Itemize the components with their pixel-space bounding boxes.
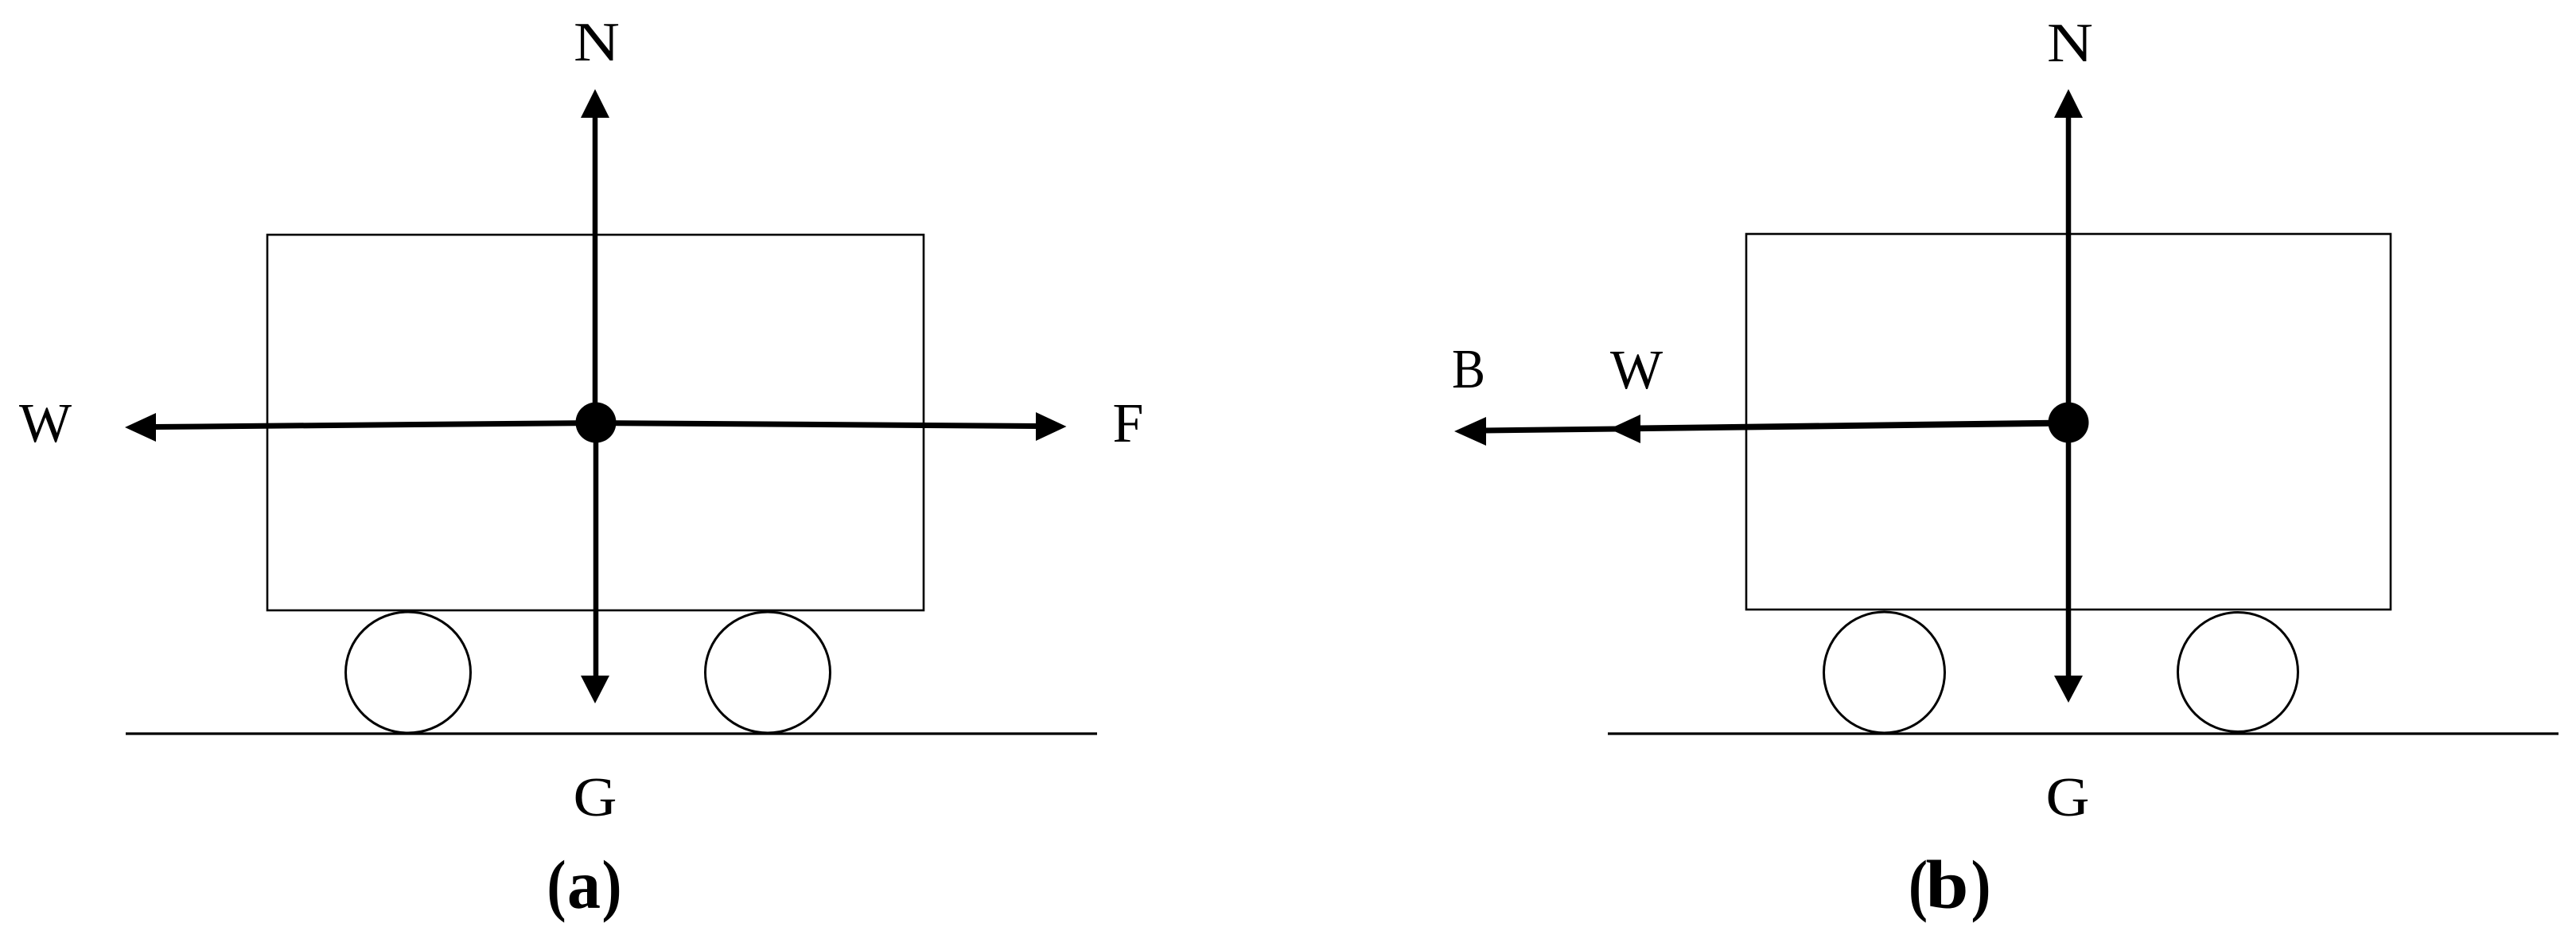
ground line (b) bbox=[1608, 732, 2558, 734]
force arrow G (a) bbox=[581, 423, 609, 703]
svg-text:): ) bbox=[602, 846, 622, 923]
svg-text:B: B bbox=[1452, 339, 1485, 400]
ground line (a) bbox=[126, 732, 1097, 734]
wheel (b) left bbox=[1824, 612, 1945, 733]
wheel (a) left bbox=[346, 612, 471, 733]
center-of-mass dot (b) bbox=[2049, 403, 2089, 443]
cart body (b) bbox=[1746, 234, 2391, 610]
force arrow W (b) bbox=[1609, 415, 2068, 443]
force arrow B (b) bbox=[1454, 417, 2068, 446]
svg-text:N: N bbox=[574, 12, 620, 73]
svg-text:a: a bbox=[567, 846, 601, 923]
cart body (a) bbox=[267, 235, 924, 610]
center-of-mass dot (a) bbox=[576, 403, 617, 443]
svg-text:b: b bbox=[1926, 846, 1969, 923]
svg-text:G: G bbox=[574, 767, 617, 828]
svg-text:(: ( bbox=[547, 846, 566, 923]
force arrow G (b) bbox=[2054, 423, 2083, 703]
svg-text:G: G bbox=[2046, 767, 2090, 828]
wheel (a) right bbox=[706, 612, 831, 733]
svg-text:N: N bbox=[2047, 13, 2093, 74]
force arrow N (b) bbox=[2054, 89, 2083, 423]
caption (b) bbox=[1909, 846, 1991, 923]
svg-text:): ) bbox=[1971, 846, 1991, 923]
svg-text:W: W bbox=[1610, 340, 1663, 401]
svg-text:F: F bbox=[1113, 393, 1144, 454]
force arrow N (a) bbox=[581, 89, 609, 423]
force arrow F (a) bbox=[596, 412, 1067, 441]
wheel (b) right bbox=[2178, 613, 2298, 732]
force arrow W (a) bbox=[125, 413, 596, 442]
caption (a) bbox=[547, 846, 622, 923]
svg-text:W: W bbox=[19, 393, 72, 454]
svg-text:(: ( bbox=[1909, 846, 1928, 923]
